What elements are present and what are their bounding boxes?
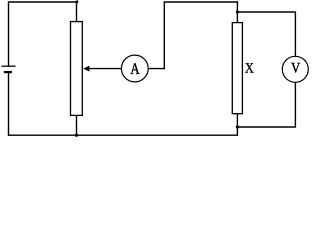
node: junction dot at bottom of resistor X branch	[236, 125, 239, 128]
wire: node down into resistor X top	[236, 2, 238, 23]
battery cell B1: short thick negative plate	[4, 71, 12, 73]
node: junction dot potentiometer lead on bottom bus	[75, 134, 78, 137]
voltmeter V body	[282, 56, 308, 82]
voltmeter V label	[291, 63, 300, 73]
wire: wiper to ammeter left terminal	[88, 68, 122, 70]
wire: potentiometer bottom lead to bus	[76, 115, 78, 135]
ammeter A label	[130, 63, 139, 74]
node: junction dot at top of resistor X branch	[236, 10, 239, 13]
wire: left branch bottom (battery minus down to bottom bus)	[8, 73, 10, 135]
battery cell B1: long positive plate	[2, 65, 16, 67]
wire: left branch top (battery to potentiometer top)	[9, 2, 77, 66]
node: dot at potentiometer top corner	[75, 0, 78, 3]
wire: bottom branch to voltmeter	[237, 82, 295, 127]
ammeter A body	[121, 55, 148, 82]
wire: bottom bus	[9, 134, 238, 136]
wire: top branch to voltmeter	[237, 12, 295, 56]
resistor X value label	[245, 63, 253, 72]
wire: resistor X bottom lead to bus	[236, 114, 238, 136]
potentiometer wiper arrow	[83, 66, 89, 72]
wire: ammeter right terminal up to top and across to node	[148, 2, 237, 69]
potentiometer R1 body	[71, 22, 83, 116]
resistor X body	[232, 23, 242, 114]
